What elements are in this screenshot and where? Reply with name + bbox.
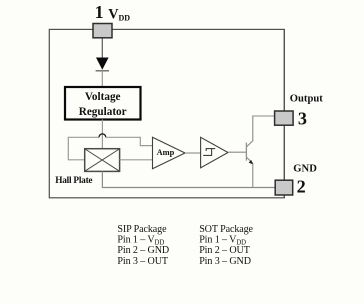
- transistor Q1 emitter lead: [247, 157, 253, 187]
- wire hall plate left output to amp upper input (with hop): [68, 137, 99, 160]
- schmitt trigger U2: [201, 137, 228, 168]
- wire regulator to hall plate bias: [101, 120, 103, 149]
- wire from VDD pad down to diode: [101, 38, 103, 58]
- diode cathode bar: [96, 70, 109, 72]
- svg-text:Pin 3 – GND: Pin 3 – GND: [199, 256, 251, 267]
- svg-text:Pin 2 – OUT: Pin 2 – OUT: [199, 245, 250, 256]
- svg-text:Voltage: Voltage: [85, 91, 121, 103]
- hall plate box: [85, 149, 120, 172]
- svg-text:3: 3: [298, 108, 307, 128]
- wire amp output to schmitt trigger: [185, 152, 201, 154]
- pin 1 VDD pad: [93, 24, 112, 38]
- label SIP package column: [117, 224, 169, 267]
- wire hall plate right output to amp lower input: [120, 159, 153, 161]
- svg-text:SOT Package: SOT Package: [199, 224, 253, 235]
- wire schmitt output to transistor base: [228, 151, 246, 153]
- label SOT package column: [199, 224, 253, 267]
- transistor Q1 emitter arrow: [249, 160, 253, 164]
- schmitt hysteresis symbol: [203, 149, 215, 156]
- wire hop continuation to amp upper input: [106, 137, 153, 145]
- wire hall plate ground to GND rail: [102, 171, 275, 187]
- pin 3 output pad: [275, 111, 294, 125]
- right rail wire (VDD top to output pad, pads to bottom corner): [283, 29, 285, 197]
- transistor Q1 collector lead: [247, 116, 275, 147]
- chip outline box: [49, 29, 284, 197]
- svg-text:1: 1: [95, 2, 104, 22]
- diode D1 (reverse-protection, anode top): [96, 58, 109, 70]
- hall plate X diagonal 2: [85, 149, 119, 171]
- voltage regulator box U1: [65, 87, 141, 120]
- hall plate X diagonal 1: [85, 149, 119, 171]
- pin 2 GND pad: [275, 180, 293, 195]
- svg-text:2: 2: [297, 176, 306, 196]
- svg-text:SIP Package: SIP Package: [117, 224, 167, 235]
- op-amp A1 (Amp triangle): [153, 137, 186, 169]
- svg-text:Amp: Amp: [157, 148, 175, 157]
- svg-text:Pin 2 – GND: Pin 2 – GND: [117, 245, 169, 256]
- transistor Q1 base bar: [245, 143, 247, 161]
- wire diode to regulator: [101, 71, 103, 87]
- wire hop over bias wire: [99, 134, 106, 137]
- svg-text:Regulator: Regulator: [79, 106, 127, 118]
- svg-text:Pin 3 – OUT: Pin 3 – OUT: [117, 256, 168, 267]
- svg-text:Hall Plate: Hall Plate: [55, 176, 92, 186]
- svg-text:GND: GND: [293, 163, 317, 174]
- svg-text:Output: Output: [290, 94, 323, 105]
